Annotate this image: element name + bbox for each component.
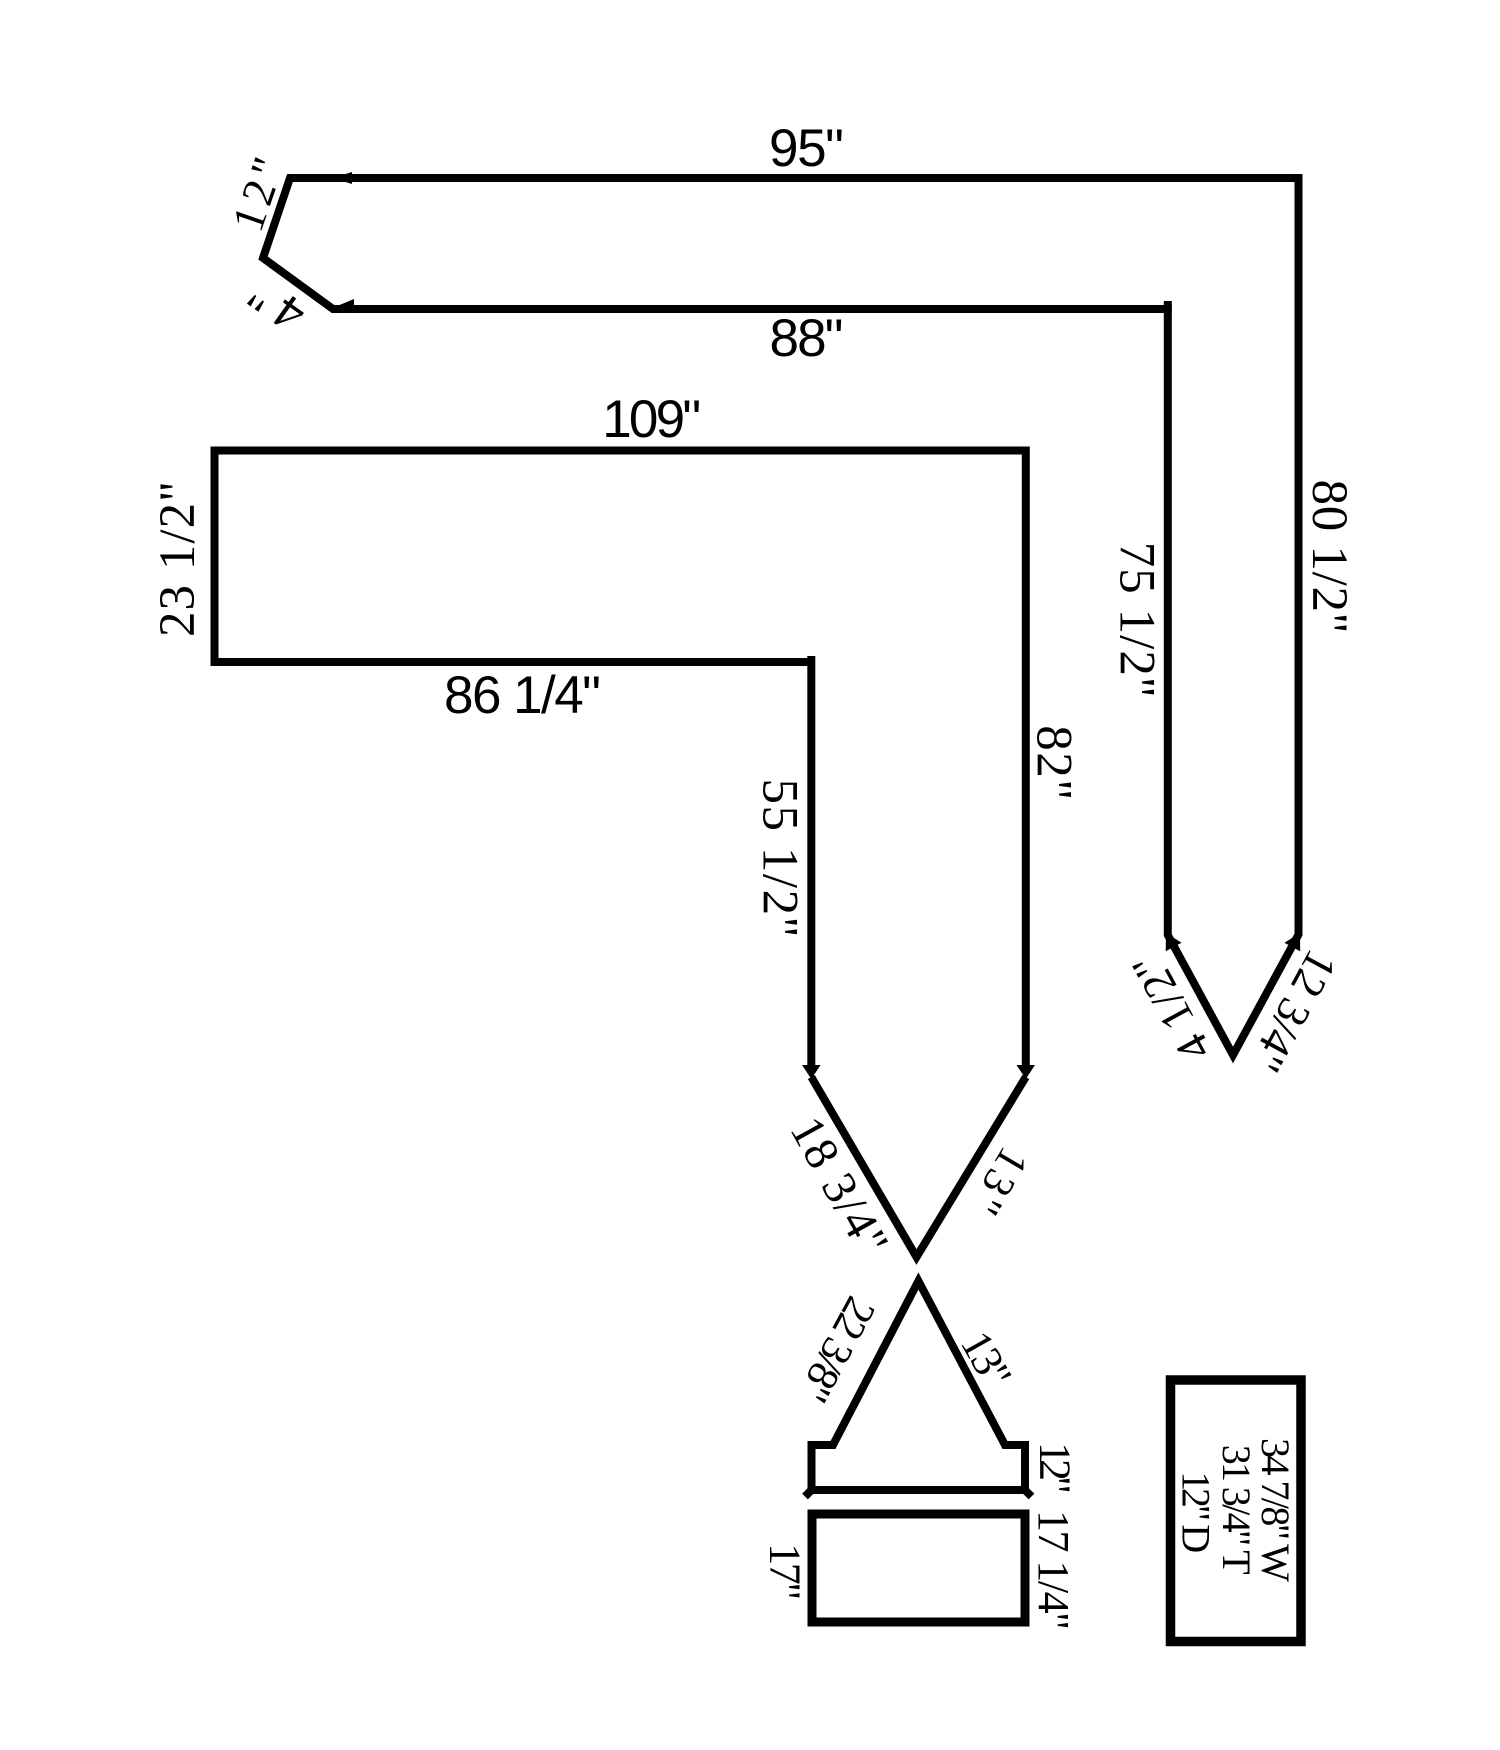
svg-text:31 3/4" T: 31 3/4" T (1214, 1445, 1259, 1575)
svg-text:12": 12" (1031, 1442, 1080, 1494)
svg-text:95": 95" (769, 119, 844, 178)
svg-text:17 1/4": 17 1/4" (1029, 1510, 1078, 1630)
svg-text:12" D: 12" D (1173, 1471, 1218, 1553)
svg-text:82": 82" (1026, 725, 1082, 800)
svg-text:88": 88" (770, 309, 844, 368)
svg-text:109": 109" (602, 390, 701, 449)
svg-text:17": 17" (761, 1543, 810, 1600)
svg-text:23 1/2": 23 1/2" (150, 481, 206, 637)
svg-text:55 1/2": 55 1/2" (752, 779, 808, 938)
svg-text:86 1/4": 86 1/4" (444, 666, 601, 725)
svg-text:80 1/2": 80 1/2" (1301, 480, 1357, 634)
svg-text:75 1/2": 75 1/2" (1109, 542, 1165, 698)
